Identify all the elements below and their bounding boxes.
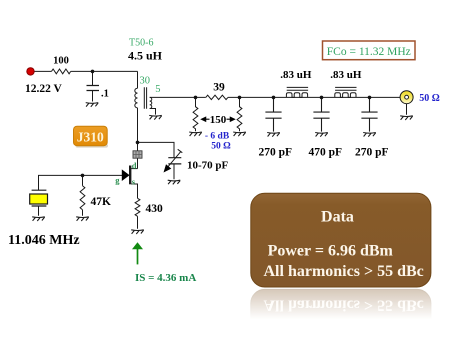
svg-text:150: 150 [210, 114, 227, 126]
svg-text:12.22 V: 12.22 V [25, 83, 63, 95]
svg-text:430: 430 [146, 203, 164, 215]
svg-text:4.5 uH: 4.5 uH [128, 49, 163, 63]
svg-text:270 pF: 270 pF [355, 146, 389, 158]
svg-text:Power = 6.96 dBm: Power = 6.96 dBm [268, 317, 394, 334]
svg-text:FCo = 11.32 MHz: FCo = 11.32 MHz [327, 46, 411, 58]
svg-text:50 Ω: 50 Ω [211, 142, 231, 152]
svg-text:.83 uH: .83 uH [280, 69, 312, 81]
svg-text:Data: Data [321, 209, 354, 226]
svg-text:470 pF: 470 pF [309, 146, 343, 158]
svg-text:5: 5 [155, 84, 160, 95]
svg-text:.83 uH: .83 uH [330, 69, 362, 81]
svg-text:270 pF: 270 pF [259, 146, 293, 158]
svg-text:.1: .1 [101, 89, 109, 100]
svg-text:g: g [115, 175, 120, 185]
svg-text:10-70 pF: 10-70 pF [187, 160, 229, 172]
svg-text:T50-6: T50-6 [129, 38, 153, 49]
svg-text:All harmonics > 55 dBc: All harmonics > 55 dBc [264, 263, 424, 280]
svg-text:30: 30 [140, 76, 151, 87]
svg-text:J310: J310 [77, 130, 104, 145]
svg-text:IS = 4.36 mA: IS = 4.36 mA [135, 272, 196, 284]
svg-text:- 6 dB: - 6 dB [205, 132, 230, 142]
svg-text:d: d [132, 160, 137, 170]
svg-text:s: s [132, 177, 136, 187]
svg-text:50 Ω: 50 Ω [419, 93, 440, 104]
svg-text:39: 39 [213, 82, 225, 94]
svg-text:11.046 MHz: 11.046 MHz [8, 233, 80, 248]
svg-text:47K: 47K [91, 196, 112, 208]
svg-text:100: 100 [53, 56, 69, 67]
svg-text:Power = 6.96 dBm: Power = 6.96 dBm [268, 243, 394, 260]
svg-text:All harmonics > 55 dBc: All harmonics > 55 dBc [264, 296, 424, 313]
